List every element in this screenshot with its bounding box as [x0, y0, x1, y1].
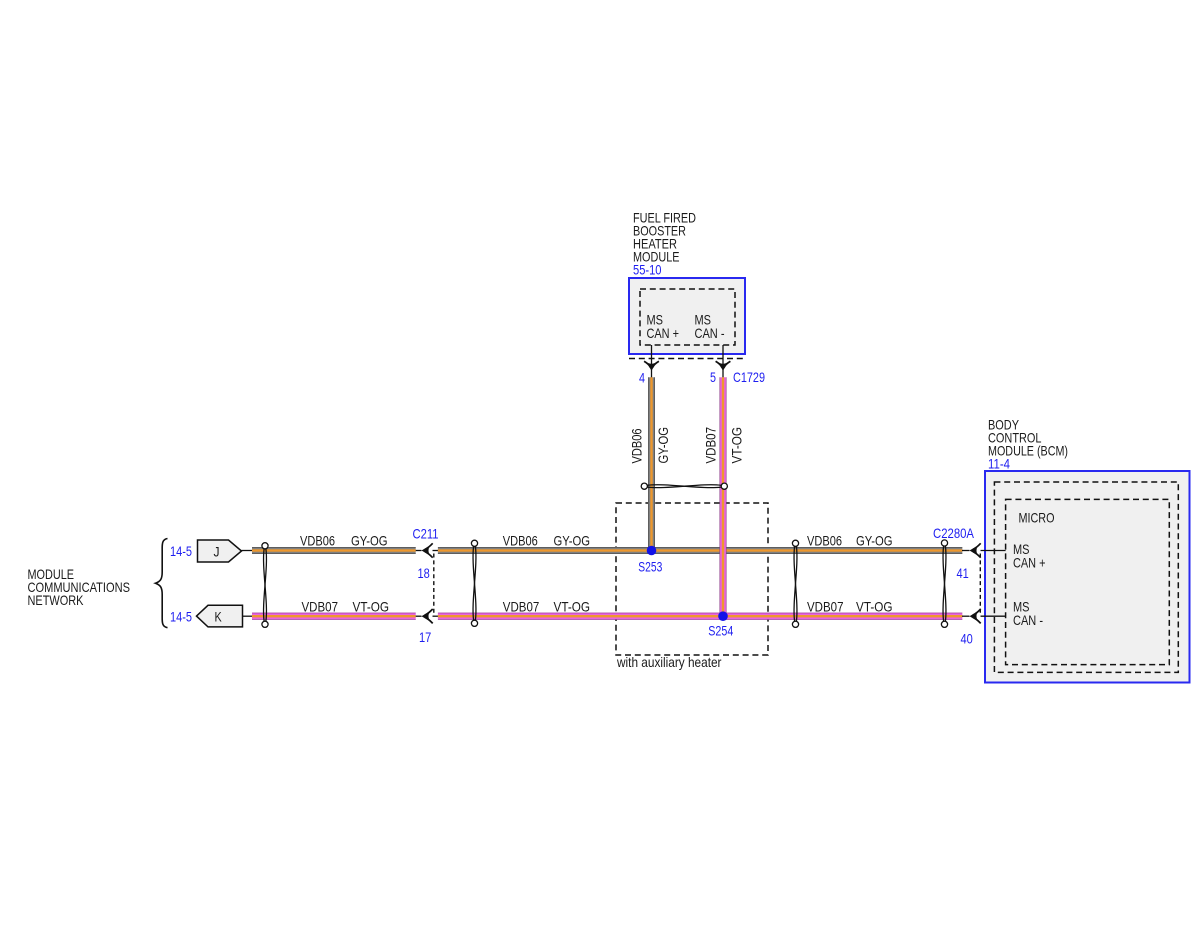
svg-text:VT-OG: VT-OG	[729, 427, 745, 464]
svg-text:CAN +: CAN +	[1013, 555, 1046, 571]
svg-text:MICRO: MICRO	[1019, 509, 1055, 525]
svg-text:VT-OG: VT-OG	[856, 598, 893, 614]
svg-text:VDB07: VDB07	[807, 598, 844, 614]
svg-text:VDB07: VDB07	[503, 598, 540, 614]
svg-text:C1729: C1729	[733, 369, 765, 385]
svg-text:CAN +: CAN +	[647, 325, 680, 341]
svg-text:GY-OG: GY-OG	[655, 427, 671, 464]
svg-text:40: 40	[961, 631, 973, 647]
svg-text:VDB07: VDB07	[703, 427, 719, 464]
svg-text:GY-OG: GY-OG	[351, 533, 388, 549]
svg-text:VDB06: VDB06	[807, 533, 842, 549]
svg-text:VDB07: VDB07	[302, 598, 339, 614]
svg-text:GY-OG: GY-OG	[856, 533, 893, 549]
svg-text:14-5: 14-5	[170, 608, 192, 624]
svg-text:4: 4	[639, 369, 645, 385]
svg-text:GY-OG: GY-OG	[554, 533, 591, 549]
svg-text:17: 17	[419, 629, 431, 645]
svg-text:VDB06: VDB06	[503, 533, 538, 549]
svg-text:C2280A: C2280A	[933, 525, 975, 541]
svg-text:VDB06: VDB06	[300, 533, 335, 549]
svg-text:55-10: 55-10	[633, 262, 662, 278]
svg-text:CAN -: CAN -	[1013, 612, 1043, 628]
svg-text:K: K	[215, 609, 223, 625]
svg-text:NETWORK: NETWORK	[28, 592, 85, 608]
svg-text:14-5: 14-5	[170, 543, 192, 559]
svg-text:VT-OG: VT-OG	[554, 598, 591, 614]
svg-text:41: 41	[957, 565, 969, 581]
svg-text:CAN -: CAN -	[695, 325, 725, 341]
svg-text:C211: C211	[413, 525, 439, 541]
svg-text:11-4: 11-4	[988, 456, 1010, 472]
svg-text:18: 18	[418, 565, 430, 581]
svg-text:5: 5	[710, 369, 716, 385]
svg-text:with auxiliary heater: with auxiliary heater	[616, 654, 722, 670]
svg-text:J: J	[214, 543, 220, 559]
svg-text:S253: S253	[638, 558, 662, 574]
svg-text:VDB06: VDB06	[629, 428, 645, 463]
svg-text:S254: S254	[708, 622, 733, 638]
svg-text:VT-OG: VT-OG	[353, 598, 390, 614]
